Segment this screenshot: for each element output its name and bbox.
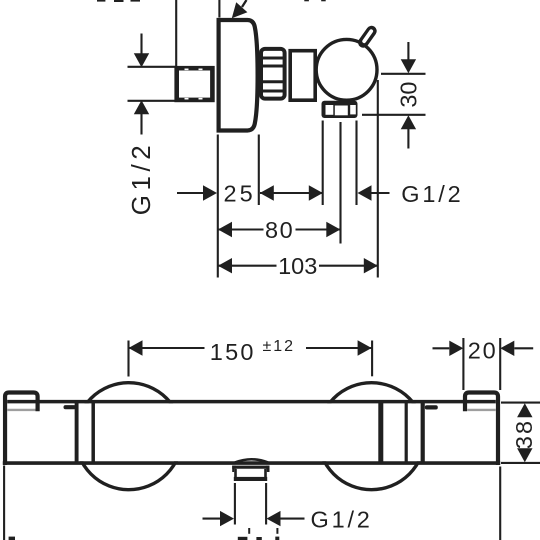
bottom cut fragments [9,528,280,540]
lever pin [363,31,371,43]
G1/2 arrow right [358,185,372,200]
collar line right b / handle edge [421,401,425,464]
dimension 30 vertical right [362,42,426,149]
svg-text:G1/2: G1/2 [126,141,156,215]
extension line above fitting [175,0,177,66]
svg-text:103: 103 [278,253,317,279]
escutcheon circle right [318,383,425,490]
svg-text:20: 20 [468,337,498,363]
collar line left [91,401,95,464]
escutcheon circle left [75,383,182,490]
dimension 25 row [177,192,204,194]
handle circle [316,39,377,100]
leader arrow to escutcheon [232,0,248,18]
valve body [290,51,315,100]
collar line right a [405,401,408,464]
indicator dash left [64,405,77,409]
svg-text:25: 25 [224,181,256,207]
dimension 20 [433,347,450,349]
bar bottom edge [3,461,500,465]
fitting thread nicks [185,69,203,100]
svg-text:G1/2: G1/2 [311,507,373,533]
svg-text:G1/2: G1/2 [401,181,463,207]
G1/2 vertical dimension left [128,34,177,135]
dimension 150 [127,341,129,377]
outlet nut front [234,469,267,481]
top cut text fragments [97,0,326,2]
svg-text:30: 30 [396,82,422,108]
svg-text:±12: ±12 [263,338,296,355]
outlet nut (side view) [322,101,358,118]
outlet extension lines [234,483,236,525]
outlet dome [235,459,268,462]
svg-text:38: 38 [511,419,537,449]
cover shadow right [467,409,496,411]
dimension 38 [501,402,540,404]
G1/2 bottom dimension [203,518,222,520]
svg-text:80: 80 [265,217,294,243]
bar top edge [7,400,496,404]
escutcheon (side view) [219,20,258,131]
cover shadow left [7,409,35,411]
outlet flange [232,466,269,469]
dimension 103 row [218,265,277,267]
wall cover right [465,393,498,466]
indicator dash right [425,405,438,409]
handle edge left [75,401,79,464]
extension lines below device [218,80,378,278]
extension line above escutcheon [218,0,220,18]
union nut ribbed [261,49,285,99]
svg-text:150: 150 [210,339,256,365]
wall cover left [5,393,38,466]
dimension 80 row [218,228,264,230]
bar body fill [3,403,501,461]
bar end line right [378,401,383,464]
wall fitting G1/2 [177,68,213,100]
bottom extension line left [3,466,5,540]
